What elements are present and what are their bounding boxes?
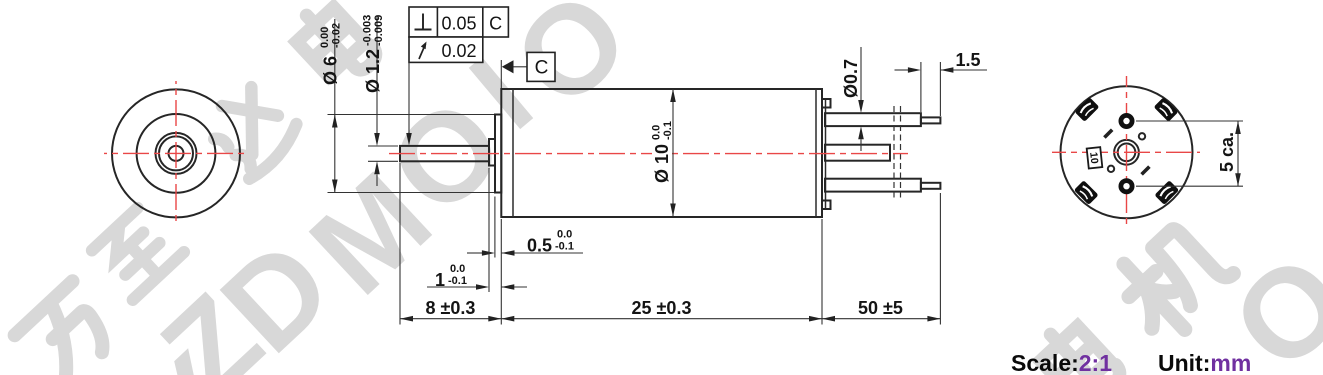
svg-text:0.02: 0.02 (441, 41, 476, 61)
bottom dimension extension lines (399, 163, 401, 325)
svg-text:5 ca.: 5 ca. (1217, 132, 1237, 172)
watermark char dian2 bottom right (1032, 316, 1124, 375)
pad top left (1075, 97, 1100, 122)
small hole lower left (1108, 166, 1114, 172)
svg-text:Ø 10: Ø 10 (652, 144, 672, 183)
dia0.7 dimension upper line (860, 47, 862, 100)
datum box C (527, 52, 555, 81)
svg-text:-0.009: -0.009 (373, 15, 385, 46)
vent slot upper left (1103, 128, 1113, 138)
svg-text:C: C (489, 14, 502, 34)
svg-text:-0.02: -0.02 (331, 23, 343, 48)
svg-text:50 ±5: 50 ±5 (858, 298, 903, 318)
front view outer circle (112, 89, 240, 217)
svg-text:1.5: 1.5 (955, 50, 980, 70)
small hole upper right (1139, 133, 1145, 139)
flange (495, 115, 501, 193)
dia0.7 dimension lower line (860, 139, 862, 151)
watermark char dian (288, 0, 380, 91)
dia6 label (319, 23, 343, 85)
motor body (501, 89, 822, 217)
pad bottom right (1154, 180, 1179, 205)
svg-text:Ø 1.2: Ø 1.2 (363, 49, 383, 93)
svg-text:-0.003: -0.003 (362, 15, 374, 46)
svg-text:0.0: 0.0 (450, 263, 465, 275)
vent slot lower right (1140, 165, 1150, 175)
front view bushing outer circle (156, 133, 197, 174)
pad bottom left (1074, 180, 1099, 205)
dia6 extension bottom (328, 192, 495, 194)
rear shaft stub (825, 145, 890, 161)
watermark char wan (15, 281, 122, 375)
svg-text:1: 1 (435, 270, 445, 290)
bottom terminal eyelet (1119, 178, 1135, 194)
dia0.7 label (841, 59, 861, 98)
rear view center line vertical (1126, 76, 1128, 228)
5ca dimension line (1237, 121, 1239, 186)
dia1.2 extension top (368, 145, 398, 147)
svg-text:-0.1: -0.1 (662, 121, 674, 140)
front view flange circle (137, 114, 216, 193)
feature control frame 2 runout (409, 37, 483, 62)
1.5 dimension (895, 69, 909, 71)
svg-text:Ø0.7: Ø0.7 (841, 59, 861, 98)
rear view outer circle (1061, 86, 1193, 218)
end cap notch top (822, 99, 831, 108)
0.5 dimension (467, 252, 482, 254)
svg-text:0.0: 0.0 (651, 125, 663, 140)
end cap edge (825, 99, 827, 209)
datum leader (514, 66, 528, 68)
svg-text:0.5: 0.5 (527, 236, 552, 256)
watermark char zhi (89, 205, 184, 300)
datum triangle (502, 60, 514, 73)
front view bushing inner circle (159, 136, 193, 170)
svg-text:0.0: 0.0 (557, 229, 572, 241)
front view center line horizontal (104, 152, 248, 154)
dia6 extension top (328, 114, 495, 116)
watermark char da (200, 77, 304, 181)
front view shaft circle (169, 146, 184, 161)
dia1.2 dimension line upper (376, 17, 378, 133)
5ca label (1217, 132, 1237, 172)
dia1.2 extension bottom (368, 160, 398, 162)
5ca extension top (1136, 120, 1243, 122)
svg-text:10: 10 (1087, 151, 1100, 164)
feature control frame 1 perpendicularity (409, 7, 508, 37)
rear view center line horizontal (1052, 151, 1200, 153)
svg-text:0.05: 0.05 (441, 14, 476, 34)
svg-text:-0.1: -0.1 (555, 241, 574, 253)
shaft (400, 146, 489, 161)
svg-text:C: C (535, 58, 549, 79)
bottom terminal tip (921, 183, 941, 189)
8 dimension line (400, 318, 940, 320)
end cap notch bottom (822, 201, 831, 210)
dia6 dimension line (334, 19, 336, 193)
break line 2 (900, 106, 902, 201)
body seam left (512, 89, 514, 217)
svg-text:8 ±0.3: 8 ±0.3 (426, 298, 476, 318)
top terminal eyelet (1119, 113, 1135, 129)
watermark bar stroke (469, 57, 533, 129)
datum extension line (500, 60, 502, 88)
pad top right (1154, 97, 1179, 122)
svg-text:0.00: 0.00 (319, 27, 331, 48)
fcf leader line (408, 62, 410, 133)
top terminal tip (921, 117, 941, 123)
rear bearing ring thick (1118, 144, 1136, 162)
svg-text:Ø 6: Ø 6 (321, 56, 341, 85)
dia1.2 label (362, 15, 386, 93)
svg-text:25 ±0.3: 25 ±0.3 (632, 298, 692, 318)
top terminal bar (825, 113, 921, 126)
svg-text:-0.1: -0.1 (448, 275, 467, 287)
body seam right (815, 89, 817, 217)
watermark char ji (1107, 214, 1239, 345)
dia10 dimension line (672, 89, 674, 217)
side view center line (389, 153, 908, 155)
dia1.2 dimension line lower (376, 174, 378, 186)
front view center line vertical (175, 81, 177, 226)
break line 1 (893, 106, 895, 201)
5ca extension bottom (1136, 185, 1243, 187)
dia10 label (651, 116, 675, 186)
bottom terminal bar (825, 179, 921, 192)
bushing (489, 139, 495, 166)
1 dimension (427, 286, 476, 288)
rear bearing ring outer (1114, 140, 1139, 165)
10 stamp (1087, 147, 1103, 168)
